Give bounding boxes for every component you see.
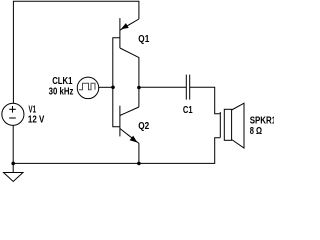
svg-text:Q1: Q1 — [138, 34, 149, 45]
svg-text:CLK1: CLK1 — [52, 76, 73, 87]
svg-text:8 Ω: 8 Ω — [250, 126, 262, 137]
svg-text:12 V: 12 V — [28, 114, 45, 125]
svg-text:C1: C1 — [183, 105, 193, 116]
svg-text:30 kHz: 30 kHz — [49, 86, 74, 97]
svg-text:Q2: Q2 — [138, 121, 149, 132]
svg-text:SPKR1: SPKR1 — [250, 116, 274, 127]
